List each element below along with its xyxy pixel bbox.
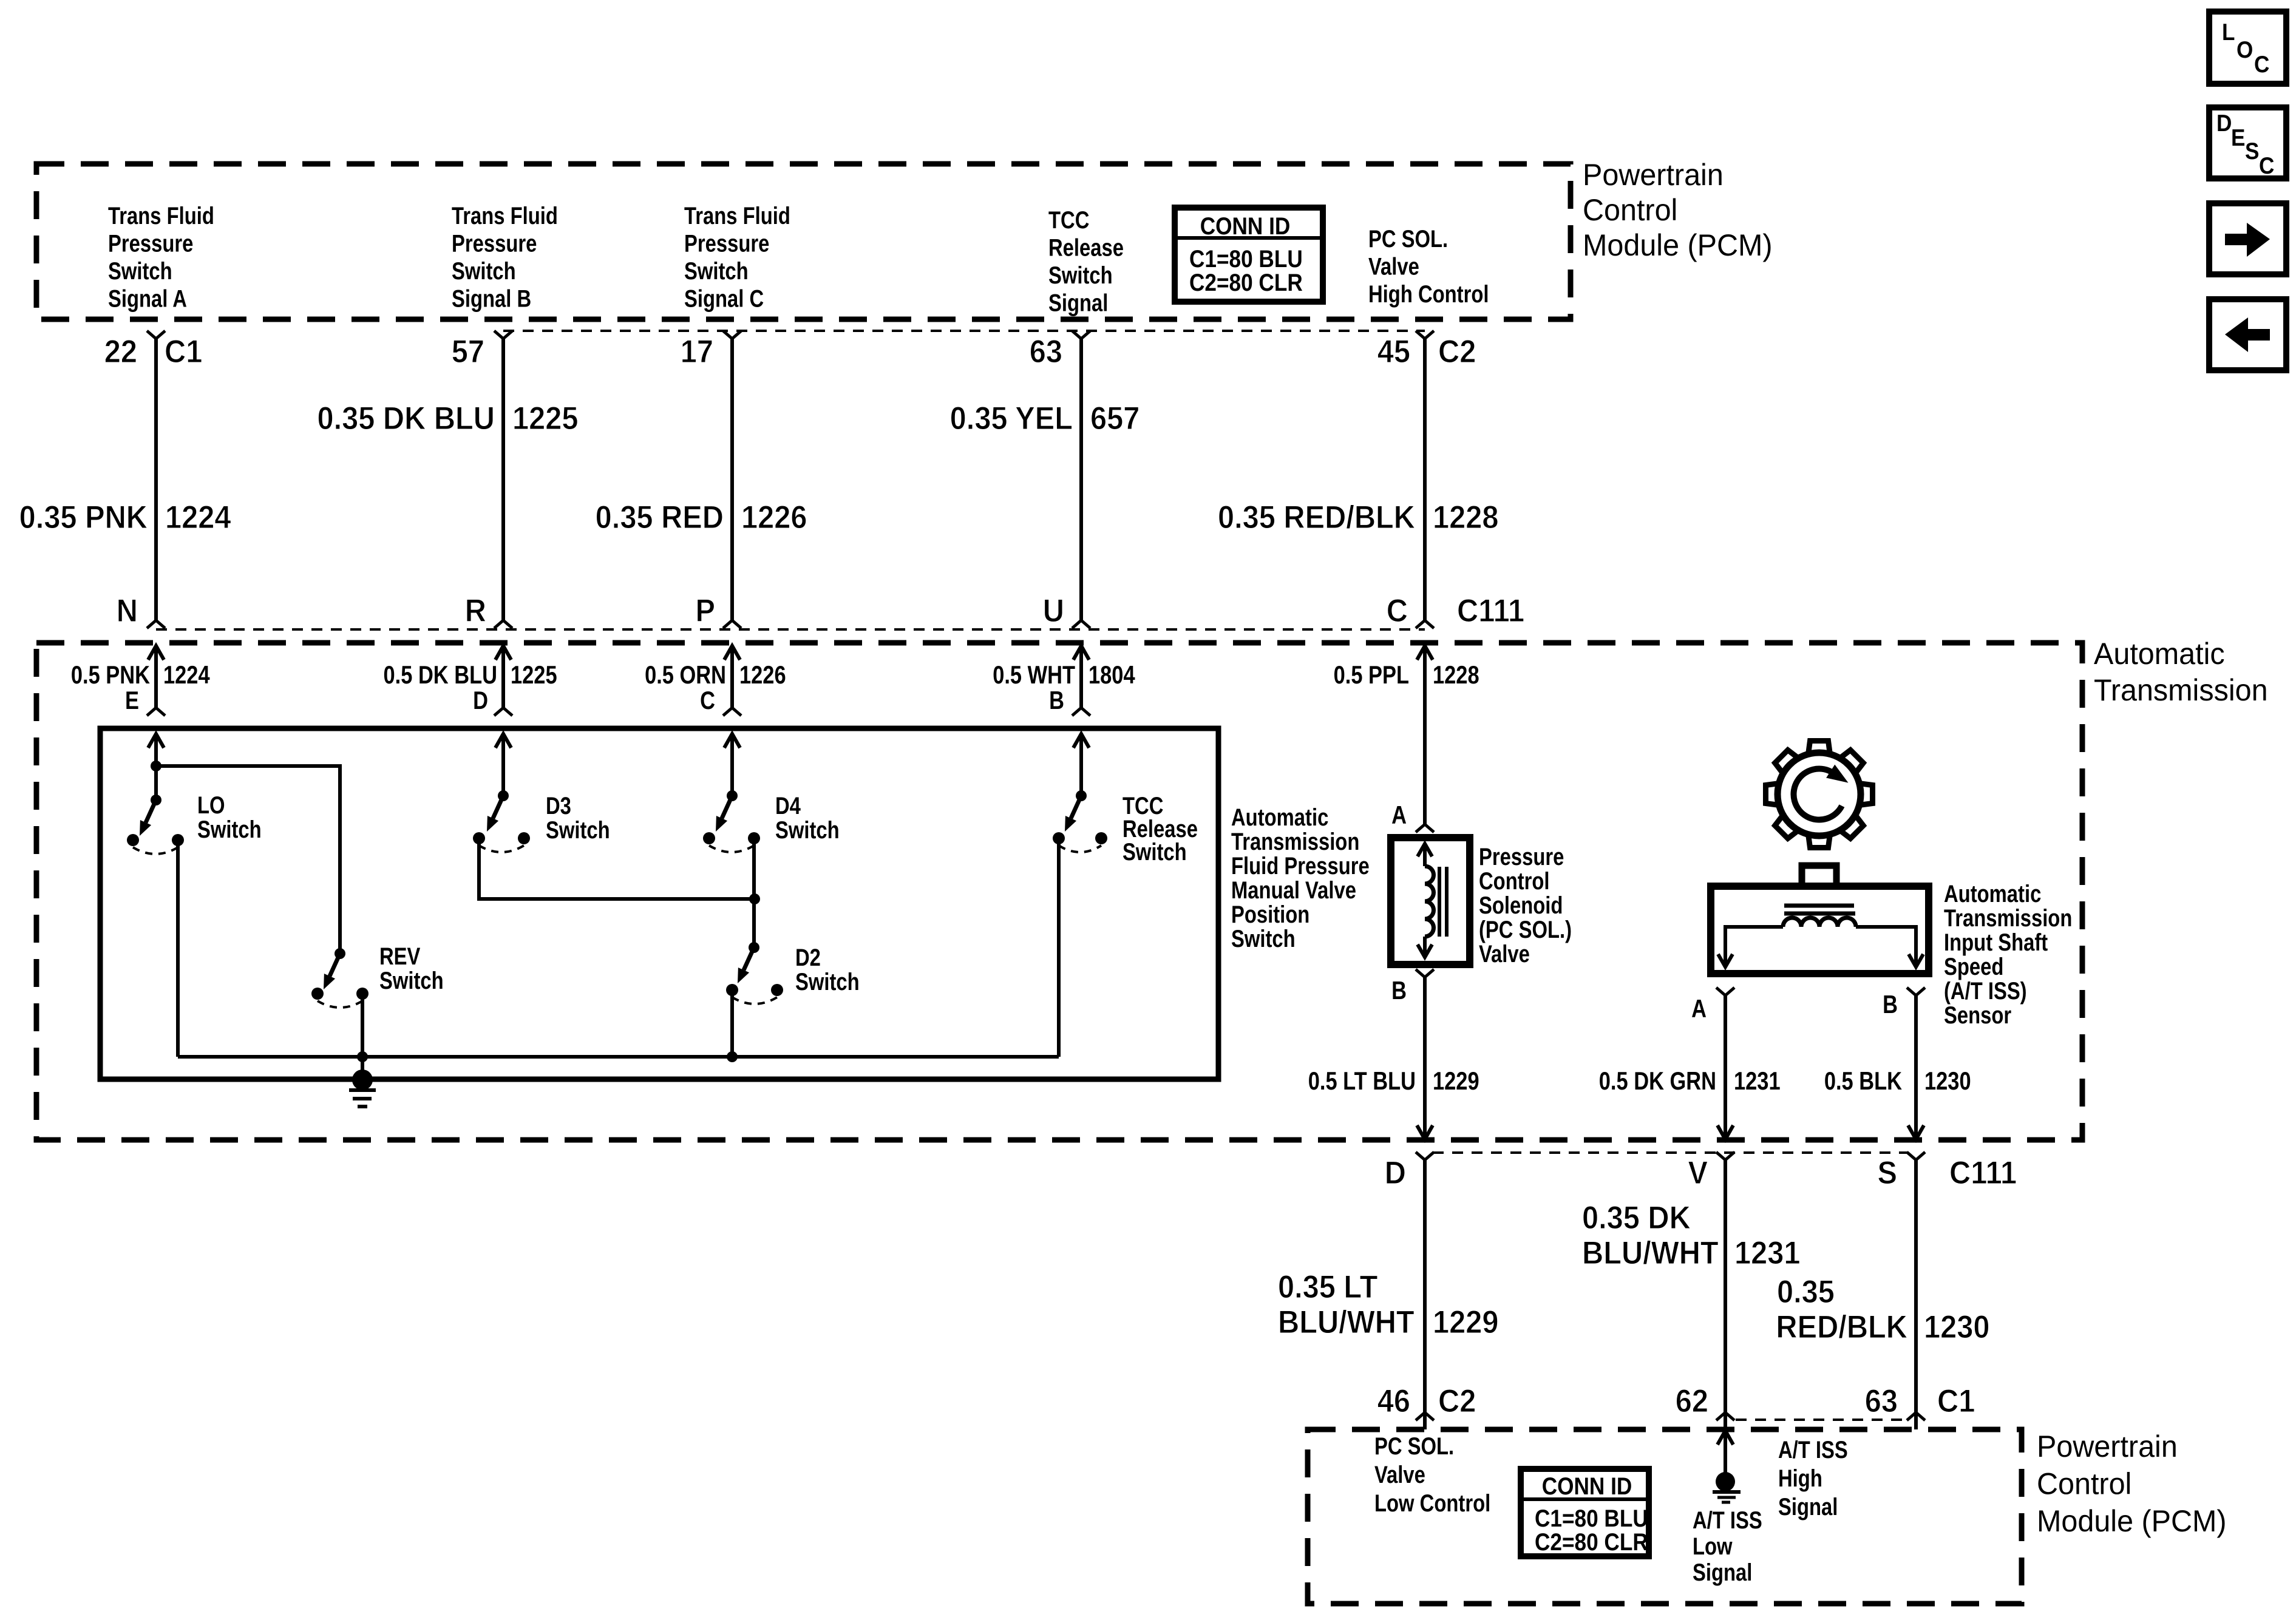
svg-text:0.5 PPL: 0.5 PPL: [1334, 661, 1409, 690]
svg-text:D2: D2: [795, 944, 821, 971]
svg-text:C2: C2: [1438, 1383, 1476, 1419]
label 0.5 LT BLU 1229: [1308, 1067, 1479, 1096]
wire 0.35 YEL 657 (pin 63 to U): [1079, 339, 1083, 620]
svg-text:1229: 1229: [1433, 1304, 1498, 1340]
svg-text:1228: 1228: [1433, 499, 1498, 535]
label LO Switch: [197, 792, 262, 843]
svg-text:63: 63: [1865, 1383, 1898, 1419]
svg-text:LO: LO: [197, 792, 225, 819]
svg-text:D: D: [473, 686, 488, 715]
svg-text:Switch: Switch: [684, 257, 749, 285]
connector line C111 (thin dashed, top): [156, 628, 1425, 631]
connector pin D: [1385, 1152, 1434, 1190]
wire 0.35 RED/BLK 1228 (pin 45 to C): [1423, 339, 1427, 620]
label Automatic Transmission: [2094, 637, 2268, 707]
svg-text:E: E: [2231, 124, 2245, 151]
svg-text:0.35 DK BLU: 0.35 DK BLU: [317, 400, 495, 436]
svg-text:Signal: Signal: [1778, 1493, 1838, 1520]
svg-text:Low: Low: [1693, 1533, 1733, 1560]
svg-text:Module (PCM): Module (PCM): [2037, 1504, 2227, 1538]
svg-text:Signal A: Signal A: [108, 285, 187, 312]
svg-text:0.35: 0.35: [1777, 1273, 1835, 1309]
svg-text:A: A: [1691, 995, 1707, 1023]
svg-text:Control: Control: [1583, 193, 1677, 227]
wire branch LO junction to REV switch: [156, 766, 340, 954]
svg-text:A/T ISS: A/T ISS: [1693, 1507, 1762, 1534]
svg-text:P: P: [695, 592, 715, 628]
label 0.35 DK BLU 1225: [317, 400, 578, 436]
label Trans Fluid Pressure Switch Signal A: [108, 202, 214, 312]
svg-text:A: A: [1391, 801, 1407, 830]
svg-text:Sensor: Sensor: [1944, 1002, 2011, 1029]
connector pin U: [1043, 592, 1090, 628]
pin B of PC solenoid: [1391, 969, 1434, 1005]
svg-text:1230: 1230: [1924, 1309, 1989, 1344]
switch TCC Release: [1053, 734, 1107, 852]
svg-text:B: B: [1049, 686, 1064, 715]
svg-text:C2: C2: [1438, 333, 1476, 369]
svg-text:0.35 DK: 0.35 DK: [1582, 1199, 1691, 1235]
connector pin 62: [1676, 1383, 1734, 1429]
svg-text:Signal C: Signal C: [684, 285, 764, 312]
connector pin R: [465, 592, 512, 628]
wire 0.35 LT BLU/WHT 1229 (D to 46): [1423, 1160, 1427, 1412]
svg-text:BLU/WHT: BLU/WHT: [1278, 1304, 1415, 1340]
gear icon (input shaft): [1766, 741, 1873, 848]
svg-text:1230: 1230: [1924, 1067, 1971, 1096]
svg-text:1226: 1226: [741, 499, 807, 535]
svg-text:Trans Fluid: Trans Fluid: [684, 202, 790, 229]
label A/T ISS High Signal: [1778, 1436, 1848, 1520]
svg-text:0.35 PNK: 0.35 PNK: [19, 499, 148, 535]
label 0.35 RED/BLK 1228: [1218, 499, 1498, 535]
connector pin V: [1688, 1152, 1734, 1190]
svg-text:17: 17: [681, 333, 713, 369]
wire 0.5 DK BLU 1225 into switch pin D: [384, 646, 557, 716]
svg-text:62: 62: [1676, 1383, 1708, 1419]
wire ground bus: [178, 1051, 1059, 1062]
connector pin 45 C2: [1377, 331, 1476, 369]
svg-text:1231: 1231: [1734, 1067, 1781, 1096]
svg-text:C111: C111: [1949, 1154, 2017, 1190]
wire LO right contact down to bus: [176, 840, 180, 1057]
svg-text:Switch: Switch: [1123, 838, 1187, 866]
connector pin 46 C2: [1377, 1383, 1476, 1429]
ground symbol A/T ISS Low Signal: [1713, 1431, 1741, 1502]
svg-text:E: E: [125, 686, 139, 715]
svg-text:TCC: TCC: [1048, 206, 1089, 234]
label PC SOL. Valve High Control: [1368, 225, 1489, 308]
svg-text:Transmission: Transmission: [1944, 904, 2072, 932]
A/T ISS sensor box: [1711, 866, 1929, 974]
svg-text:R: R: [465, 592, 486, 628]
connector pin C C111: [1387, 592, 1524, 628]
svg-text:Valve: Valve: [1479, 940, 1530, 968]
svg-text:Signal B: Signal B: [452, 285, 531, 312]
pin A of PC solenoid: [1391, 801, 1434, 832]
wire 0.5 ORN 1226 into switch pin C: [645, 646, 786, 716]
svg-text:V: V: [1688, 1154, 1708, 1190]
ground symbol (switch assembly): [349, 1057, 376, 1107]
label D4 Switch: [775, 792, 840, 844]
svg-text:Switch: Switch: [1048, 262, 1113, 289]
svg-text:C1: C1: [165, 333, 202, 369]
pin B of sensor: [1883, 988, 1925, 1019]
svg-text:S: S: [1877, 1154, 1897, 1190]
svg-text:Switch: Switch: [546, 816, 610, 844]
svg-text:C: C: [1387, 592, 1408, 628]
wire 0.35 DK BLU/WHT 1231 (V to 62): [1724, 1160, 1727, 1412]
svg-text:PC SOL.: PC SOL.: [1368, 225, 1448, 253]
svg-text:1226: 1226: [739, 661, 786, 690]
connector pin S C111: [1877, 1152, 2017, 1190]
svg-text:D4: D4: [775, 792, 801, 819]
svg-text:Transmission: Transmission: [2094, 673, 2268, 707]
switch REV: [311, 948, 369, 1008]
svg-text:Module (PCM): Module (PCM): [1583, 228, 1773, 262]
svg-text:D: D: [2216, 109, 2232, 136]
icon button next (right arrow): [2209, 203, 2286, 274]
label TCC Release Switch Signal: [1048, 206, 1124, 316]
label 0.35 PNK 1224: [19, 499, 231, 535]
solenoid PC SOL. valve box: [1391, 838, 1470, 964]
wire D2 left contact down to bus: [730, 990, 734, 1057]
label 0.5 DK GRN 1231: [1599, 1067, 1781, 1096]
svg-text:46: 46: [1377, 1383, 1410, 1419]
label Automatic Transmission Fluid Pressure Manual Valve Position Switch: [1231, 804, 1370, 952]
label Trans Fluid Pressure Switch Signal B: [452, 202, 558, 312]
wire 0.5 DK GRN 1231 (sensor A to V): [1717, 995, 1733, 1139]
svg-text:0.5 LT BLU: 0.5 LT BLU: [1308, 1067, 1416, 1096]
label A/T ISS Low Signal: [1693, 1507, 1762, 1586]
label 0.35 RED 1226: [596, 499, 807, 535]
svg-text:D: D: [1385, 1154, 1406, 1190]
svg-text:0.5 DK GRN: 0.5 DK GRN: [1599, 1067, 1716, 1096]
PCM top module box (dashed): [36, 164, 1571, 319]
svg-text:CONN ID: CONN ID: [1200, 212, 1291, 240]
wire 0.5 PNK 1224 into switch pin E: [71, 646, 210, 716]
svg-text:Manual Valve: Manual Valve: [1231, 876, 1356, 904]
svg-text:0.5 DK BLU: 0.5 DK BLU: [384, 661, 497, 690]
label Trans Fluid Pressure Switch Signal C: [684, 202, 790, 312]
svg-text:N: N: [117, 592, 138, 628]
svg-text:B: B: [1391, 977, 1407, 1005]
svg-text:(PC SOL.): (PC SOL.): [1479, 916, 1572, 943]
icon button back (left arrow): [2209, 299, 2286, 370]
icon button LOC: [2209, 12, 2286, 84]
label PC SOL. Valve Low Control: [1374, 1432, 1490, 1517]
connector line C1 (thin dashed, bottom PCM): [1736, 1419, 1906, 1421]
svg-text:Position: Position: [1231, 901, 1309, 928]
svg-text:Pressure: Pressure: [1479, 843, 1564, 870]
pin A of sensor: [1691, 988, 1734, 1023]
svg-text:Trans Fluid: Trans Fluid: [452, 202, 558, 229]
svg-text:Speed: Speed: [1944, 953, 2003, 980]
wire 0.5 BLK 1230 (sensor B to S): [1908, 995, 1924, 1139]
svg-text:Powertrain: Powertrain: [2037, 1429, 2178, 1463]
svg-text:Solenoid: Solenoid: [1479, 892, 1563, 919]
svg-text:U: U: [1043, 592, 1064, 628]
connector pin 17: [681, 331, 741, 369]
svg-text:O: O: [2237, 36, 2253, 63]
svg-text:45: 45: [1377, 333, 1410, 369]
svg-text:63: 63: [1030, 333, 1062, 369]
switch D3: [473, 734, 530, 852]
svg-text:High Control: High Control: [1368, 280, 1489, 308]
solenoid coil and core: [1418, 844, 1447, 957]
svg-text:Switch: Switch: [775, 816, 840, 844]
wire REV right contact down to ground bus: [361, 994, 364, 1057]
label Powertrain Control Module (PCM) top: [1583, 158, 1773, 262]
svg-text:Switch: Switch: [1231, 925, 1296, 952]
switch D4: [703, 734, 760, 852]
svg-text:0.5 WHT: 0.5 WHT: [993, 661, 1075, 690]
svg-text:RED/BLK: RED/BLK: [1776, 1309, 1907, 1344]
label REV Switch: [379, 943, 444, 994]
svg-text:S: S: [2245, 137, 2259, 164]
wire TCC left contact down to bus: [1057, 838, 1061, 1057]
label TCC Release Switch: [1123, 792, 1198, 866]
svg-text:Switch: Switch: [108, 257, 172, 285]
svg-text:Automatic: Automatic: [1944, 880, 2041, 907]
svg-text:Switch: Switch: [379, 967, 444, 994]
svg-text:C1: C1: [1937, 1383, 1975, 1419]
svg-text:1231: 1231: [1734, 1235, 1800, 1270]
svg-text:Automatic: Automatic: [1231, 804, 1328, 831]
svg-text:Release: Release: [1048, 234, 1124, 261]
svg-text:B: B: [1883, 991, 1898, 1019]
connector pin N: [117, 592, 165, 628]
connector line C1/C2 (thin dashed): [503, 330, 1425, 332]
svg-text:Automatic: Automatic: [2094, 637, 2225, 671]
svg-text:Switch: Switch: [795, 968, 860, 995]
label Powertrain Control Module (PCM) bottom: [2037, 1429, 2227, 1538]
svg-text:0.5 ORN: 0.5 ORN: [645, 661, 726, 690]
svg-text:Valve: Valve: [1368, 253, 1419, 280]
svg-text:C: C: [700, 686, 715, 715]
svg-text:Trans Fluid: Trans Fluid: [108, 202, 214, 229]
wire 0.35 PNK 1224 (pin 22 to N): [154, 339, 158, 620]
svg-text:C2=80 CLR: C2=80 CLR: [1189, 269, 1303, 296]
svg-text:1804: 1804: [1089, 661, 1135, 690]
label 0.35 DK BLU/WHT 1231: [1582, 1199, 1800, 1270]
svg-text:0.35 RED: 0.35 RED: [596, 499, 724, 535]
svg-text:C2=80 CLR: C2=80 CLR: [1535, 1528, 1648, 1556]
svg-text:22: 22: [104, 333, 137, 369]
CONN ID table top: [1175, 208, 1323, 302]
svg-text:Pressure: Pressure: [684, 229, 769, 257]
svg-text:High: High: [1778, 1465, 1822, 1492]
svg-text:1224: 1224: [163, 661, 210, 690]
label D2 Switch: [795, 944, 860, 995]
svg-text:1229: 1229: [1433, 1067, 1479, 1096]
wire 0.5 LT BLU 1229 (solenoid B to D): [1417, 977, 1433, 1139]
wire D4 right contact down to D2: [749, 838, 760, 947]
svg-text:C: C: [2259, 152, 2274, 178]
svg-text:BLU/WHT: BLU/WHT: [1582, 1235, 1719, 1270]
svg-text:Signal: Signal: [1693, 1559, 1752, 1586]
svg-text:1228: 1228: [1433, 661, 1479, 690]
svg-text:57: 57: [452, 333, 484, 369]
svg-text:Fluid Pressure: Fluid Pressure: [1231, 852, 1370, 880]
svg-text:0.35 YEL: 0.35 YEL: [950, 400, 1073, 436]
switch LO: [127, 734, 184, 854]
svg-text:Input Shaft: Input Shaft: [1944, 929, 2048, 956]
svg-text:Low Control: Low Control: [1374, 1490, 1490, 1517]
svg-text:0.5 PNK: 0.5 PNK: [71, 661, 150, 690]
connector line C111 (thin dashed, bottom): [1433, 1151, 1908, 1154]
svg-text:Pressure: Pressure: [108, 229, 193, 257]
svg-text:Transmission: Transmission: [1231, 828, 1359, 855]
wire 0.5 PPL 1228 into solenoid pin A: [1334, 646, 1479, 824]
svg-text:Signal: Signal: [1048, 289, 1108, 316]
svg-text:1225: 1225: [511, 661, 557, 690]
label Pressure Control Solenoid (PC SOL.) Valve: [1479, 843, 1572, 968]
wire 0.35 DK BLU 1225 (pin 57 to R): [501, 339, 505, 620]
wire 0.5 WHT 1804 into switch pin B: [993, 646, 1135, 716]
label 0.35 LT BLU/WHT 1229: [1278, 1269, 1498, 1340]
wire 0.35 RED 1226 (pin 17 to P): [730, 339, 734, 620]
label 0.35 RED/BLK 1230: [1776, 1273, 1989, 1344]
CONN ID table bottom: [1521, 1469, 1649, 1556]
svg-text:657: 657: [1090, 400, 1140, 436]
svg-text:C1=80 BLU: C1=80 BLU: [1535, 1505, 1648, 1532]
label 0.5 BLK 1230: [1824, 1067, 1971, 1096]
svg-text:L: L: [2222, 18, 2235, 45]
label 0.35 YEL 657: [950, 400, 1140, 436]
Automatic Transmission box (dashed): [36, 643, 2082, 1140]
svg-text:PC SOL.: PC SOL.: [1374, 1432, 1454, 1460]
svg-text:(A/T ISS): (A/T ISS): [1944, 977, 2027, 1005]
svg-text:Valve: Valve: [1374, 1461, 1425, 1488]
svg-text:0.35 RED/BLK: 0.35 RED/BLK: [1218, 499, 1415, 535]
svg-text:D3: D3: [546, 792, 571, 819]
icon button DESC: [2209, 107, 2286, 178]
sensor coil and core: [1718, 906, 1923, 967]
svg-text:0.35 LT: 0.35 LT: [1278, 1269, 1377, 1304]
svg-text:Control: Control: [2037, 1467, 2131, 1501]
connector pin 22 C1: [104, 331, 203, 369]
svg-text:A/T ISS: A/T ISS: [1778, 1436, 1848, 1463]
svg-text:Pressure: Pressure: [452, 229, 537, 257]
switch D2: [726, 942, 783, 1004]
connector pin 63: [1030, 331, 1090, 369]
svg-text:C111: C111: [1457, 592, 1524, 628]
svg-text:C1=80 BLU: C1=80 BLU: [1189, 245, 1303, 273]
svg-text:Switch: Switch: [452, 257, 516, 285]
Automatic Transmission Fluid Pressure Manual Valve Position Switch box: [100, 728, 1218, 1079]
svg-text:REV: REV: [379, 943, 421, 970]
label Automatic Transmission Input Shaft Speed (A/T ISS) Sensor: [1944, 880, 2072, 1029]
connector pin 63 C1: [1865, 1383, 1975, 1429]
svg-text:Powertrain: Powertrain: [1583, 158, 1724, 192]
wire D3 left contact to D4 column: [479, 838, 755, 899]
wire 0.35 RED/BLK 1230 (S to 63): [1914, 1160, 1918, 1412]
svg-text:Control: Control: [1479, 867, 1550, 895]
svg-text:0.5 BLK: 0.5 BLK: [1824, 1067, 1902, 1096]
svg-text:CONN ID: CONN ID: [1542, 1473, 1632, 1500]
connector pin 57: [452, 331, 512, 369]
svg-text:1224: 1224: [165, 499, 231, 535]
svg-text:Switch: Switch: [197, 816, 262, 843]
label D3 Switch: [546, 792, 610, 844]
svg-text:C: C: [2254, 50, 2269, 77]
svg-text:1225: 1225: [512, 400, 578, 436]
PCM bottom module box (dashed): [1308, 1429, 2022, 1604]
connector pin P: [695, 592, 741, 628]
